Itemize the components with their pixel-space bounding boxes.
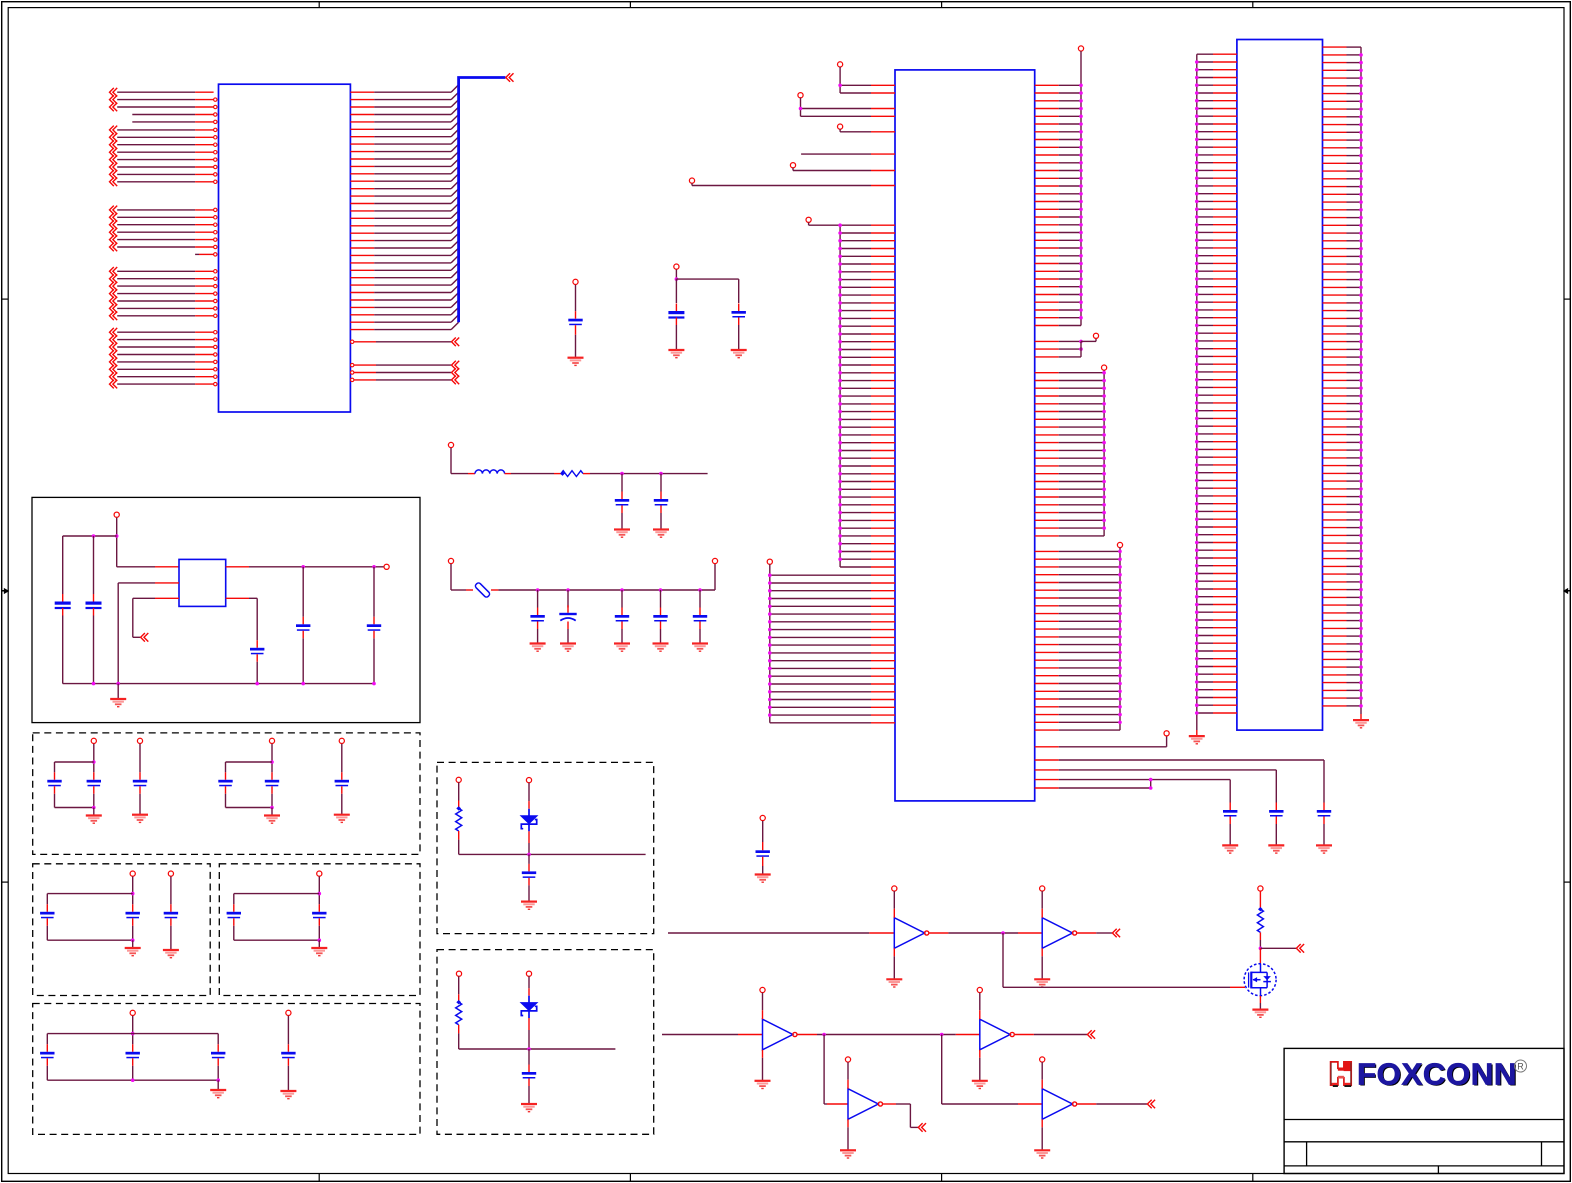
wire (893, 891, 895, 909)
wire (117, 566, 155, 568)
wire (1041, 948, 1043, 956)
power terminal (114, 512, 119, 517)
inverter U4F (1042, 1089, 1072, 1120)
wire (287, 1066, 289, 1091)
power terminal (448, 442, 453, 447)
wire (1323, 824, 1325, 845)
wire (528, 1086, 530, 1104)
power terminal (168, 871, 173, 876)
capacitor C21 (341, 772, 343, 780)
power terminal (91, 738, 96, 743)
resistor R4 (1258, 907, 1263, 911)
resistor R3 (456, 1000, 461, 1004)
off-page connector chevron (1087, 1030, 1095, 1039)
regulator U3 (179, 559, 226, 606)
wire (rail) (47, 1079, 218, 1081)
capacitor C24 (170, 904, 172, 912)
wire (528, 1049, 530, 1065)
wire (1002, 933, 1004, 987)
wire (217, 1080, 219, 1090)
wire (1259, 948, 1261, 964)
ground (521, 1103, 537, 1105)
capacitor C13 (256, 640, 258, 648)
wire (691, 183, 693, 185)
U2 right pin bundle R1 with bus (1035, 51, 1083, 325)
wire (271, 808, 273, 816)
wire (302, 567, 304, 617)
wire (699, 629, 701, 644)
wire (226, 566, 249, 568)
wire (132, 926, 134, 940)
wire (567, 590, 569, 608)
capacitor C4 (621, 492, 623, 500)
junction (838, 84, 842, 88)
Foxconn logo (1331, 1058, 1527, 1093)
power terminal (977, 987, 982, 992)
ground (530, 642, 546, 644)
wire (117, 583, 119, 684)
ground (125, 947, 141, 949)
ground (280, 1090, 296, 1092)
wire (341, 744, 343, 773)
capacitor bank box (dashed) (33, 1004, 420, 1135)
capacitor C3 (738, 304, 740, 312)
wire (93, 536, 95, 594)
power terminal (712, 558, 717, 563)
power terminal (838, 124, 843, 129)
wire (1229, 824, 1231, 845)
capacitor C23 (132, 904, 134, 912)
wire (62, 616, 64, 684)
fuse F1 (474, 582, 490, 598)
wire (660, 513, 662, 530)
inverter U4C (763, 1019, 793, 1050)
wire (318, 877, 320, 905)
wire (459, 853, 646, 855)
capacitor C31 (528, 864, 530, 872)
ground (614, 528, 630, 530)
wire (575, 285, 577, 311)
U2 left pin bundle A with bus (809, 223, 895, 567)
wire (1018, 932, 1042, 934)
wire (1260, 947, 1296, 949)
ground (653, 642, 669, 644)
wire (341, 794, 343, 815)
wire (1259, 996, 1261, 1003)
capacitor C27 (46, 1044, 48, 1052)
off-page connector chevron (bus) (506, 73, 514, 82)
wire (762, 1050, 764, 1058)
capacitor C5 (660, 492, 662, 500)
ground (1222, 844, 1238, 846)
junction (216, 1078, 220, 1082)
ground (614, 642, 630, 644)
wire (762, 866, 764, 875)
wire (668, 932, 869, 934)
wire (675, 325, 677, 350)
wire (93, 808, 95, 816)
junction (318, 938, 322, 942)
wire (929, 932, 948, 934)
power terminal (130, 871, 135, 876)
ground (210, 1089, 226, 1091)
regulator circuit box (32, 497, 420, 722)
ground (668, 349, 684, 351)
capacitor bank box (dashed) (33, 733, 420, 855)
capacitor C19 (225, 772, 227, 780)
wire (1041, 891, 1043, 909)
inverter U4A (894, 918, 924, 949)
wire (132, 1066, 134, 1080)
junction (115, 534, 119, 538)
wire (458, 831, 460, 840)
junction (675, 277, 679, 281)
off-page connector chevron (1112, 929, 1120, 938)
wire (1077, 932, 1096, 934)
wire (46, 926, 48, 940)
wire (271, 794, 273, 808)
wire (1077, 1103, 1096, 1105)
junction (92, 760, 96, 764)
capacitor C20 (271, 772, 273, 780)
ground (1252, 1008, 1268, 1010)
wire (979, 1050, 981, 1058)
ground (653, 528, 669, 530)
ground (731, 349, 747, 351)
wire (808, 222, 810, 225)
ground (311, 947, 327, 949)
wire (373, 638, 375, 683)
wire (302, 638, 304, 683)
wire (675, 270, 677, 280)
junction (659, 472, 663, 476)
power terminal (526, 971, 531, 976)
wire (1035, 759, 1059, 761)
U2 right pin bundle R2 with bus (1035, 370, 1106, 536)
wire (839, 67, 841, 93)
U1 lower right pin wires with off-page chevrons (351, 361, 460, 384)
wire (528, 1011, 530, 1019)
junction (698, 588, 702, 592)
capacitor C14 (302, 617, 304, 625)
ground (86, 814, 102, 816)
wire (537, 590, 539, 608)
wire (505, 473, 511, 475)
power terminal (1102, 365, 1107, 370)
ground (886, 978, 902, 980)
wire (1015, 1034, 1034, 1036)
off-page connector chevron (1296, 944, 1304, 953)
capacitor C9 (660, 608, 662, 616)
wire (941, 1035, 943, 1105)
wire (792, 168, 794, 171)
power terminal (456, 971, 461, 976)
wire (537, 629, 539, 644)
wire (93, 616, 95, 684)
capacitor C1 (568, 319, 582, 322)
power terminal (456, 777, 461, 782)
wire (847, 1119, 849, 1127)
wire (459, 1048, 616, 1050)
capacitor C33 (756, 850, 770, 853)
wire (226, 761, 273, 763)
power terminal (767, 559, 772, 564)
wire (93, 744, 95, 773)
J1 left pin wires with bus (1195, 54, 1237, 736)
J1 right pin wires with bus (1323, 47, 1363, 720)
wire (1259, 891, 1261, 909)
wire (155, 597, 179, 599)
power terminal (806, 217, 811, 222)
wire (1035, 787, 1059, 789)
ground (560, 642, 576, 644)
power terminal (317, 871, 322, 876)
wire (491, 589, 498, 591)
wire (373, 567, 375, 617)
junction (620, 472, 624, 476)
connector J1 (1237, 40, 1323, 731)
junction (372, 565, 376, 569)
power terminal (790, 163, 795, 168)
junction (940, 1033, 944, 1037)
wire (762, 821, 764, 842)
ground (163, 949, 179, 951)
ground (1353, 719, 1369, 721)
wire (528, 885, 530, 901)
wire (170, 926, 172, 950)
wire (1259, 932, 1261, 940)
wire (46, 1066, 48, 1080)
junction (536, 588, 540, 592)
power terminal (760, 815, 765, 820)
wire (528, 976, 530, 988)
junction (1149, 778, 1153, 782)
wire (823, 1035, 825, 1105)
power terminal (286, 1010, 291, 1015)
power terminal (674, 264, 679, 269)
wire (979, 993, 981, 1011)
power terminal (573, 279, 578, 284)
junction (301, 565, 305, 569)
wire (1035, 769, 1059, 771)
power terminal (1258, 886, 1263, 891)
ground (1034, 1149, 1050, 1151)
wire (956, 1034, 980, 1036)
junction (131, 892, 135, 896)
junction (799, 107, 803, 111)
power terminal (384, 564, 389, 569)
capacitor C6 (537, 608, 539, 616)
wire (660, 629, 662, 644)
wire (676, 278, 738, 280)
wire (55, 761, 94, 763)
junction (1149, 786, 1153, 790)
wire (217, 1066, 219, 1080)
diode D1 (zener) (521, 816, 537, 824)
junction (659, 588, 663, 592)
U2 right pin bundle R3 with bus (1035, 548, 1122, 731)
wire (528, 854, 530, 864)
wire (621, 590, 623, 608)
wire (234, 893, 319, 895)
capacitor C11 (62, 594, 64, 602)
wire (233, 926, 235, 940)
capacitor C12 (93, 594, 95, 602)
power terminal (339, 738, 344, 743)
U2 left pin bundle B with bus (768, 564, 895, 723)
ground (1316, 844, 1332, 846)
junction (131, 938, 135, 942)
resistor R1 (560, 471, 565, 476)
wire (1275, 824, 1277, 845)
wire (139, 794, 141, 815)
junction (255, 682, 259, 686)
capacitor C8 (621, 608, 623, 616)
wire (883, 1103, 896, 1105)
wire (1035, 746, 1059, 748)
power terminal (130, 1010, 135, 1015)
junction (1001, 931, 1005, 935)
ground (334, 814, 350, 816)
junction (116, 682, 120, 686)
wire (699, 590, 701, 608)
capacitor C17 (93, 772, 95, 780)
ground (568, 357, 584, 359)
capacitor C15 (373, 617, 375, 625)
junction (822, 1033, 826, 1037)
junction (372, 682, 376, 686)
off-page connector chevron (141, 633, 149, 642)
power terminal (1040, 1057, 1045, 1062)
capacitor C28 (132, 1044, 134, 1052)
wire (256, 662, 258, 684)
wire (132, 877, 134, 905)
svg-text:FOXCONN: FOXCONN (1357, 1058, 1517, 1092)
wire (800, 98, 802, 117)
wire (116, 518, 118, 567)
power terminal (1117, 542, 1122, 547)
inverter U4E (848, 1089, 878, 1120)
IC U1 (219, 84, 351, 412)
wire (226, 597, 249, 599)
wire (225, 794, 227, 808)
junction (131, 1032, 135, 1036)
capacitor C29 (217, 1044, 219, 1052)
junction (301, 682, 305, 686)
inverter U4D (980, 1019, 1010, 1050)
wire (621, 474, 623, 492)
IC U2 (895, 70, 1035, 801)
capacitor C16 (54, 772, 56, 780)
ground (110, 698, 126, 700)
ground (521, 900, 537, 902)
wire (567, 629, 569, 644)
U1 left short pin wires (132, 113, 217, 256)
power terminal (689, 178, 694, 183)
power terminal (1078, 46, 1083, 51)
wire (528, 824, 530, 832)
resistor R2 (456, 806, 461, 810)
protection circuit box (dashed) (437, 762, 654, 933)
wire (93, 794, 95, 808)
protection circuit box (dashed) (437, 950, 654, 1135)
ground (132, 814, 148, 816)
junction (566, 588, 570, 592)
power terminal (838, 62, 843, 67)
wire (47, 893, 132, 895)
wire (1041, 1062, 1043, 1080)
wire (847, 1062, 849, 1080)
wire (62, 536, 64, 594)
junction (92, 682, 96, 686)
junction (318, 892, 322, 896)
wire (139, 744, 141, 773)
diode D2 (zener) (521, 1003, 537, 1011)
U1 right single pin wire with off-page chevron (351, 338, 460, 347)
junction (92, 534, 96, 538)
wire (318, 940, 320, 948)
ground (1034, 978, 1050, 980)
wire (271, 744, 273, 773)
capacitor C34 (1229, 803, 1231, 811)
wire (575, 335, 577, 358)
wire (450, 448, 452, 474)
ground (840, 1149, 856, 1151)
ground (1189, 735, 1205, 737)
ground (755, 873, 771, 875)
wire (ground rail) (63, 683, 374, 685)
off-page connector chevron (918, 1123, 926, 1132)
wire (117, 684, 119, 699)
power terminal (760, 987, 765, 992)
capacitor C35 (1275, 803, 1277, 811)
ground (972, 1080, 988, 1082)
wire (63, 535, 117, 537)
bus from U1 to off-page (459, 78, 506, 323)
svg-text:R: R (1517, 1061, 1524, 1071)
wire (1035, 779, 1059, 781)
off-page connector chevron (1147, 1100, 1155, 1109)
wire (54, 794, 56, 808)
inductor L1 (475, 470, 505, 474)
wire (660, 590, 662, 608)
junction (527, 853, 531, 857)
wire (762, 993, 764, 1011)
power terminal (798, 93, 803, 98)
wire (458, 976, 460, 994)
power terminal (1164, 731, 1169, 736)
capacitor C7 (567, 605, 569, 613)
wire (528, 783, 530, 801)
power terminal (1040, 886, 1045, 891)
junction (270, 760, 274, 764)
capacitor C22 (46, 904, 48, 912)
wire (583, 473, 590, 475)
wire (801, 115, 872, 117)
power terminal (269, 738, 274, 743)
capacitor C18 (139, 772, 141, 780)
junction (92, 806, 96, 810)
wire (798, 1034, 818, 1036)
wire (840, 92, 871, 94)
wire (132, 1016, 134, 1045)
transistor Q1 (N-MOSFET) (1244, 964, 1276, 996)
title block (1284, 1048, 1564, 1173)
wire (801, 153, 871, 155)
capacitor C36 (1323, 803, 1325, 811)
wire (1041, 1119, 1043, 1127)
wire (458, 782, 460, 800)
